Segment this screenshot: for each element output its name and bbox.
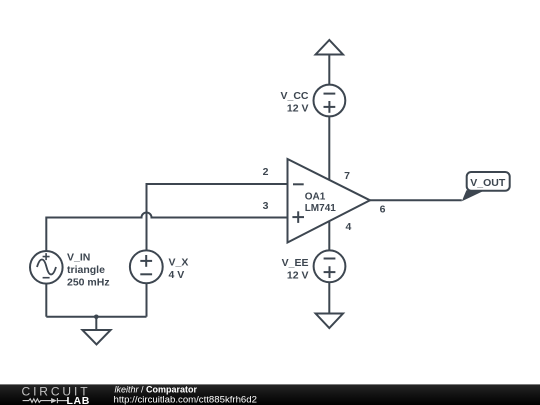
svg-text:12 V: 12 V: [287, 269, 309, 281]
svg-text:V_IN: V_IN: [67, 252, 90, 264]
node V_OUT flag tail: [462, 190, 485, 201]
svg-text:V_OUT: V_OUT: [470, 177, 506, 189]
label V_EE 12 V: [282, 257, 309, 282]
wire V_IN bottom: [45, 284, 47, 317]
svg-text:6: 6: [380, 204, 386, 216]
wire V_CC source to op-amp pin 7: [328, 116, 330, 181]
wire V_X bottom: [146, 283, 148, 317]
CircuitLab logo LAB text: [67, 395, 90, 405]
svg-text:3: 3: [263, 200, 269, 212]
svg-text:7: 7: [344, 170, 350, 182]
wire pin 2 from V_X corner to op-amp: [147, 184, 291, 252]
voltage source V_EE: [314, 250, 346, 282]
voltage source V_IN (triangle wave source): [30, 251, 63, 284]
wire V_CC flag to V_CC source top: [328, 55, 330, 85]
label OA1 LM741: [305, 191, 337, 214]
pin number 4: [345, 221, 351, 233]
wire bottom rail: [46, 316, 146, 318]
pin number 2: [263, 166, 269, 178]
wire junction to ground: [95, 317, 97, 330]
wire pin 3 from V_IN with hop over V_X wire: [46, 213, 290, 252]
pin number 3: [263, 200, 269, 212]
junction dot: [94, 315, 99, 320]
op-amp OA1 triangle: [288, 159, 371, 243]
power flag V_CC (up triangle): [316, 40, 343, 55]
CircuitLab logo resistor and diode glyph: [23, 398, 68, 403]
svg-text:V_CC: V_CC: [280, 90, 308, 102]
op-amp non-inverting input plus symbol: [292, 211, 304, 223]
svg-text:V_X: V_X: [169, 257, 189, 269]
svg-text:LAB: LAB: [67, 395, 90, 405]
svg-text:lkeithr / Comparator: lkeithr / Comparator: [115, 385, 198, 395]
wire V_EE to negative power flag: [328, 282, 330, 313]
voltage source V_X: [130, 250, 163, 283]
op-amp inverting input minus symbol: [293, 183, 304, 185]
svg-text:250 mHz: 250 mHz: [67, 277, 110, 289]
svg-text:12 V: 12 V: [287, 103, 309, 115]
footer url line: [114, 394, 257, 405]
voltage source V_CC: [314, 85, 346, 117]
wire op-amp pin 4 to V_EE: [328, 221, 330, 251]
svg-text:LM741: LM741: [305, 203, 337, 214]
label V_X 4 V: [169, 257, 189, 282]
ground: [82, 330, 110, 345]
pin number 7: [344, 170, 350, 182]
svg-text:V_EE: V_EE: [282, 257, 309, 269]
footer bar: [0, 384, 540, 405]
svg-text:4 V: 4 V: [169, 269, 185, 281]
pin number 6: [380, 204, 386, 216]
power flag V_EE (down triangle): [316, 314, 343, 329]
svg-text:2: 2: [263, 166, 269, 178]
svg-text:4: 4: [345, 221, 351, 233]
footer credit line: [115, 385, 198, 395]
label V_CC 12 V: [280, 90, 308, 115]
label V_IN triangle 250 mHz: [67, 252, 110, 289]
wire op-amp output pin 6 to V_OUT: [370, 199, 462, 201]
svg-text:OA1: OA1: [305, 191, 326, 202]
svg-text:triangle: triangle: [67, 264, 105, 276]
svg-text:http://circuitlab.com/ctt885kf: http://circuitlab.com/ctt885kfrh6d2: [114, 394, 257, 405]
CircuitLab logo CIRCUIT text: [22, 385, 91, 399]
node V_OUT flag: [467, 172, 510, 191]
